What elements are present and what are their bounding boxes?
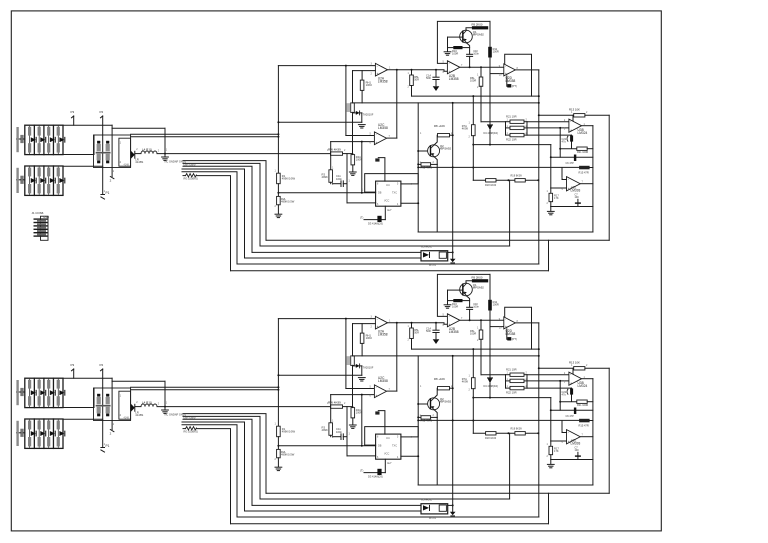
svg-text:GND: GND: [43, 215, 49, 219]
channel 1 (top): [16, 21, 609, 270]
connector J1 CON6: [32, 211, 50, 240]
channel 2 (bottom): [16, 274, 609, 523]
svg-text:J1 CON6: J1 CON6: [32, 211, 44, 215]
